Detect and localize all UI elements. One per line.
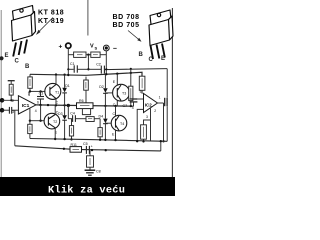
svg-text:7: 7 [28,92,30,96]
wire - column down to rail [105,51,107,74]
wire feedback (lower bus B) [15,146,161,151]
svg-text:2: 2 [12,99,14,103]
transistor T4 [111,115,127,131]
wire IC1 pin7 up [28,91,30,96]
svg-text:KT 818: KT 818 [38,10,64,17]
transistor T2 [44,113,60,129]
leader arrow (right package) [128,31,140,41]
wire output feedback down [163,103,165,141]
resistor R14 (to ground) [89,150,91,155]
svg-text:E: E [5,53,9,59]
resistor R9 [98,128,102,137]
svg-text:B: B [139,52,144,58]
svg-text:D1: D1 [65,84,70,88]
wire IC2 pin3 down [150,108,152,141]
svg-text:C4: C4 [70,111,75,115]
leader arrow (left package) [37,18,53,34]
svg-text:T2: T2 [53,120,57,124]
svg-text:IC1: IC1 [22,103,30,109]
wire IC2 pin4 [137,109,143,141]
svg-text:T4: T4 [120,122,124,126]
transistor package BD708 (TO-220 drawing) [149,10,173,46]
pin labels B C E (right package) [139,52,166,63]
wire output bus [36,105,134,106]
junction dots on bus [39,104,41,106]
vertical callout line above Vs [87,0,89,36]
terminal +Vs [66,43,71,48]
resistor value marks [11,55,143,165]
svg-text:+: + [91,144,93,148]
pin labels E C B (left package) [5,53,31,70]
svg-text:D3: D3 [58,112,63,116]
svg-text:C7: C7 [123,104,128,108]
svg-text:IC2: IC2 [145,103,152,108]
resistor R8 (Zobel) [86,117,94,122]
left scan border [0,10,2,177]
resistor R5 (vertical bias) [85,77,87,80]
resistor R10 (rail to bus) [130,69,132,86]
resistor R13 (top right) [139,76,145,90]
wire midpoint down [87,55,89,70]
op-amp IC1 [18,96,36,114]
svg-text:E: E [161,56,165,62]
input terminal IN2 [0,108,4,113]
wire T4 to bus [115,106,117,116]
wire T4 emitter down [115,130,117,140]
transistor package KT818 (TO-220 drawing) [12,6,36,42]
svg-text:–: – [113,46,117,53]
wire T2 emitter down [54,128,56,139]
inductor L1 loop under R6 [82,109,90,115]
svg-text:C5: C5 [83,142,88,146]
wire T3 to rail [116,74,118,85]
input terminal IN1 [0,98,4,103]
resistor R15 (below C4 to lower bus) [71,119,73,126]
svg-text:C2: C2 [96,63,101,67]
wire T1 emitter to bus [55,99,57,106]
wire T4 base [105,122,111,124]
label KT 818 / KT 819 [38,10,64,26]
label BD 708 / BD 705 [113,14,140,29]
svg-text:C8: C8 [96,170,101,174]
package KT818 legs [13,40,27,57]
junction dots on lower bus A [54,138,56,140]
wire R4 to - terminal column [100,54,106,56]
svg-text:B: B [25,64,30,70]
junction dots on rail [55,73,57,75]
wire IN2 to input capacitor [2,109,9,111]
resistor R12 [144,120,151,125]
wire IN1 to IC1 pin2 [2,99,18,101]
wire T1 collector to rail [55,75,57,85]
svg-text:3: 3 [12,110,14,114]
resistor R7 (below IC1) [29,121,31,125]
package BD708 legs [151,44,165,60]
black caption bar [0,177,175,196]
wire C-in to IC1 pin3 [12,109,19,111]
capacitor C6 (bus to IC2 input) [130,98,138,100]
wire between R3 and R4 [86,54,91,56]
resistor R2 [29,74,31,77]
svg-text:V: V [90,44,94,50]
svg-text:D4: D4 [99,115,104,119]
wire T3 base [105,92,112,94]
svg-text:T3: T3 [122,92,126,96]
wire + column down to rail [67,55,69,75]
transistor T1 [45,83,61,99]
wire T2 base [30,120,44,122]
wire IC1 pin4 down [29,109,31,121]
wire feedback left vertical [14,110,16,146]
svg-text:S: S [95,46,98,51]
svg-text:6: 6 [37,101,39,105]
junction dots on lower bus B [63,148,65,150]
wire from + terminal down [67,48,69,54]
wire bus to T2 base [40,105,42,121]
svg-text:T1: T1 [55,91,59,95]
wire bus tap down to Zobel chain [67,105,69,118]
wire lower bus A [30,139,167,142]
svg-text:BD 705: BD 705 [113,22,140,29]
svg-text:C: C [15,59,20,65]
wire output [158,102,164,104]
wire right rail [171,8,173,177]
svg-text:Klik za veću: Klik za veću [48,184,125,196]
svg-text:BD 708: BD 708 [113,14,140,21]
svg-text:4: 4 [132,106,134,110]
svg-text:C: C [149,57,154,63]
op-amp IC2 [144,94,158,113]
capacitor C9 (output, to right rail wire) [164,98,166,106]
resistor R1 [8,80,15,82]
svg-text:C1: C1 [70,62,75,66]
svg-text:D2: D2 [99,85,104,89]
capacitor C8 and ground [85,169,96,171]
resistor R3 [74,52,86,57]
svg-text:+: + [59,44,63,51]
capacitor C5 (in feedback wire) [87,149,89,152]
wire T1 base [30,90,45,92]
wire T2 collector to bus [54,105,56,114]
terminal -Vs [103,45,109,51]
transistor T3 [113,84,130,101]
wire positive rail [30,72,142,76]
svg-text:2: 2 [154,109,156,113]
svg-text:1: 1 [159,95,161,99]
junction R3/R4 midpoint [87,54,89,56]
capacitor C-in [8,107,10,114]
resistor R4 [91,52,100,57]
svg-text:3: 3 [146,115,148,119]
terminal on left edge [0,56,4,60]
wire T3 to bus [116,100,118,106]
svg-text:4: 4 [35,109,37,113]
